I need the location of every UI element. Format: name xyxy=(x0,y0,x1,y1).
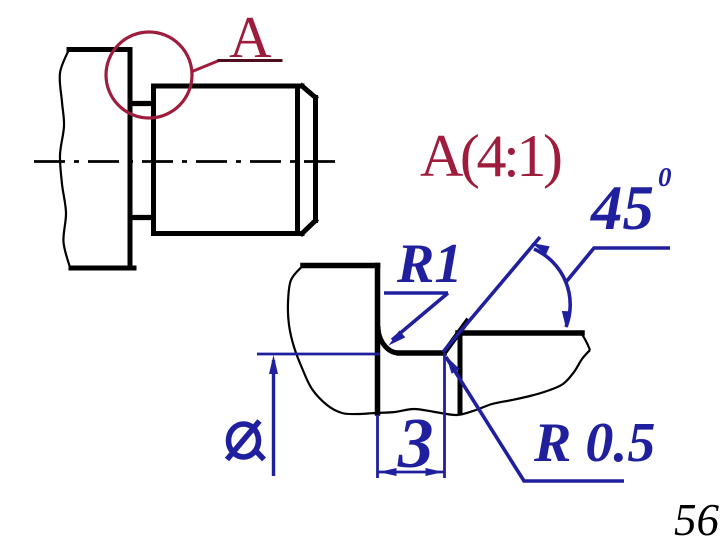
dimension: diameter extension line xyxy=(257,353,380,356)
arrowheads of dimension 3 xyxy=(379,468,444,476)
shoulder (head) outline left view xyxy=(69,50,134,269)
dimension 3: extension lines xyxy=(378,353,445,478)
svg-text:45: 45 xyxy=(590,173,654,243)
detail view break line (wavy boundary) xyxy=(288,266,590,416)
detail circle A xyxy=(106,32,192,118)
detail view: 45 deg chamfer line xyxy=(444,322,467,354)
dimension R 0.5 leader xyxy=(446,357,624,481)
dimension 45 deg text xyxy=(590,162,672,243)
dimension R 0.5 text xyxy=(533,412,655,474)
svg-text:R1: R1 xyxy=(396,233,462,295)
label A xyxy=(229,4,272,70)
cylinder (threaded end) outline left view xyxy=(154,86,316,234)
svg-text:A: A xyxy=(229,4,272,70)
dimension 3: arrow line xyxy=(378,471,445,474)
groove (undercut) in left view xyxy=(128,104,152,218)
svg-text:3: 3 xyxy=(397,405,434,483)
break line (wavy left edge of shoulder) xyxy=(60,50,70,268)
underline of label A xyxy=(218,59,283,62)
detail view: shoulder right face line xyxy=(375,266,381,414)
arrowhead of R 0.5 leader xyxy=(446,356,459,374)
detail view: groove bottom line xyxy=(399,350,444,356)
svg-text:0: 0 xyxy=(658,162,672,192)
svg-text:R 0.5: R 0.5 xyxy=(533,412,655,474)
dimension 45 deg line xyxy=(443,237,540,352)
page number 56 xyxy=(674,495,720,540)
arrowheads of 45 deg arc xyxy=(532,243,571,328)
diameter symbol xyxy=(227,421,264,460)
detail view: chamfer edge line xyxy=(458,333,463,413)
detail view: fillet R1 xyxy=(378,326,399,353)
detail view title A(4:1) xyxy=(420,123,561,189)
arrowhead of diameter dimension xyxy=(269,355,278,374)
leader of 45 deg dimension xyxy=(566,248,670,282)
dimension 45 deg arc xyxy=(534,249,570,327)
detail view: shoulder surface line xyxy=(303,263,378,269)
leader from detail circle to label A xyxy=(191,61,219,73)
dimension 3 text xyxy=(397,405,434,483)
dimension R1 leader xyxy=(384,293,448,340)
arrowhead of R1 leader xyxy=(389,330,406,345)
centerline (shaft axis, dash-dot) xyxy=(34,160,338,163)
detail view: cylinder surface line xyxy=(458,330,582,336)
dimension: diameter arrow line xyxy=(272,360,275,476)
dimension R1 text xyxy=(396,233,462,295)
svg-text:56: 56 xyxy=(674,495,720,540)
svg-text:A(4:1): A(4:1) xyxy=(420,123,561,189)
